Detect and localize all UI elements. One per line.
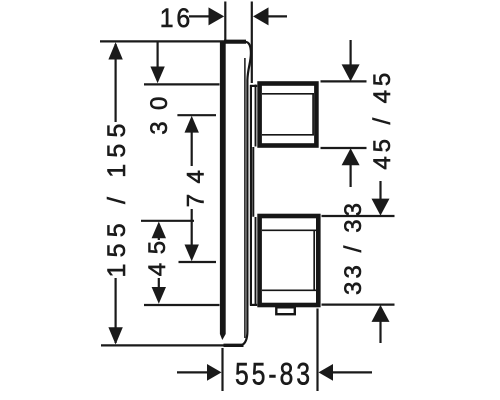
svg-text:45: 45 xyxy=(144,232,171,276)
svg-text:55-83: 55-83 xyxy=(235,355,313,391)
svg-text:74: 74 xyxy=(182,160,209,208)
svg-text:155 / 155: 155 / 155 xyxy=(103,117,131,277)
svg-text:33 / 33: 33 / 33 xyxy=(340,200,367,295)
svg-text:16: 16 xyxy=(160,4,193,33)
svg-text:30: 30 xyxy=(146,85,173,135)
svg-text:45 / 45: 45 / 45 xyxy=(369,69,396,170)
